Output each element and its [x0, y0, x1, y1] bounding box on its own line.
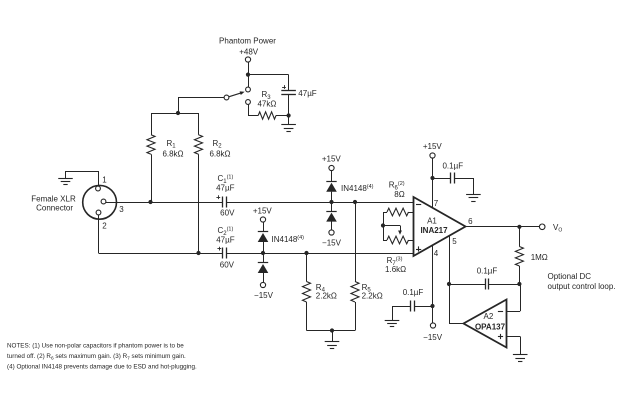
- svg-text:1MΩ: 1MΩ: [531, 253, 548, 262]
- svg-text:2: 2: [102, 222, 107, 231]
- svg-text:A2: A2: [484, 312, 494, 321]
- svg-text:4: 4: [434, 249, 439, 258]
- svg-text:Phantom Power: Phantom Power: [219, 36, 276, 45]
- svg-text:output control loop.: output control loop.: [548, 282, 616, 291]
- svg-text:−15V: −15V: [322, 238, 342, 247]
- svg-text:5: 5: [452, 237, 457, 246]
- svg-text:NOTES: (1) Use non-polar capac: NOTES: (1) Use non-polar capacitors if p…: [7, 343, 184, 350]
- svg-text:60V: 60V: [220, 261, 235, 270]
- svg-text:OPA137: OPA137: [475, 323, 506, 332]
- svg-text:INA217: INA217: [420, 226, 448, 235]
- svg-text:+48V: +48V: [239, 47, 259, 56]
- svg-text:+15V: +15V: [253, 207, 273, 216]
- svg-text:6: 6: [468, 217, 473, 226]
- svg-text:1.6kΩ: 1.6kΩ: [385, 265, 406, 274]
- svg-text:3: 3: [119, 205, 124, 214]
- svg-text:47kΩ: 47kΩ: [257, 100, 276, 109]
- svg-text:7: 7: [434, 199, 439, 208]
- svg-text:1: 1: [102, 176, 107, 185]
- svg-text:0.1µF: 0.1µF: [442, 161, 463, 170]
- svg-text:8Ω: 8Ω: [394, 190, 404, 199]
- svg-text:Female XLR: Female XLR: [31, 194, 76, 203]
- svg-text:47µF: 47µF: [216, 236, 235, 245]
- svg-text:0.1µF: 0.1µF: [477, 266, 498, 275]
- svg-text:+15V: +15V: [322, 155, 342, 164]
- svg-text:6.8kΩ: 6.8kΩ: [162, 149, 183, 158]
- svg-text:2.2kΩ: 2.2kΩ: [316, 291, 337, 300]
- svg-text:6.8kΩ: 6.8kΩ: [209, 149, 230, 158]
- svg-text:Connector: Connector: [36, 203, 73, 212]
- svg-text:−15V: −15V: [254, 291, 274, 300]
- svg-text:60V: 60V: [220, 209, 235, 218]
- svg-text:2.2kΩ: 2.2kΩ: [362, 291, 383, 300]
- svg-text:(4) Optional IN4148 prevents d: (4) Optional IN4148 prevents damage due …: [7, 363, 197, 370]
- svg-text:47µF: 47µF: [216, 184, 235, 193]
- svg-text:0.1µF: 0.1µF: [403, 288, 424, 297]
- svg-text:+15V: +15V: [423, 142, 443, 151]
- svg-text:−15V: −15V: [423, 333, 443, 342]
- svg-text:A1: A1: [427, 216, 437, 225]
- svg-text:47µF: 47µF: [298, 89, 317, 98]
- svg-text:Optional DC: Optional DC: [548, 272, 592, 281]
